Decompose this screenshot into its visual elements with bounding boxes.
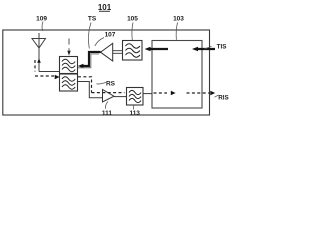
leader for 111 bbox=[105, 102, 108, 109]
filter 105 bbox=[123, 41, 143, 61]
antenna 109 bbox=[32, 33, 46, 72]
svg-text:TS: TS bbox=[88, 16, 97, 23]
LNA 111 (points right) bbox=[103, 90, 115, 103]
svg-text:TIS: TIS bbox=[217, 44, 227, 51]
leader for 109 bbox=[41, 22, 44, 32]
wire antenna to TX filter bbox=[39, 71, 60, 73]
TX filter (duplexer top) bbox=[60, 57, 78, 74]
leader for 103 bbox=[176, 23, 177, 40]
heavy TS input arrow at right (TIS) bbox=[198, 48, 216, 50]
dashed RS path from antenna down bbox=[35, 60, 54, 76]
arrowhead into TX filter bbox=[78, 64, 84, 68]
thin shadow elbow bbox=[78, 54, 99, 68]
svg-text:107: 107 bbox=[105, 32, 116, 39]
svg-text:109: 109 bbox=[36, 16, 47, 23]
leader for 107 bbox=[95, 38, 104, 47]
arrowhead into RX filter bbox=[55, 75, 60, 79]
leader for RIS bbox=[215, 95, 219, 97]
leader for RS bbox=[97, 82, 107, 84]
wire 111 to 113 bbox=[114, 96, 127, 98]
double wire 105 to 107 bbox=[113, 51, 123, 54]
svg-text:RS: RS bbox=[106, 81, 116, 88]
wire 113 to 103 bbox=[143, 93, 152, 95]
filter 113 bbox=[127, 88, 144, 106]
svg-text:105: 105 bbox=[127, 16, 138, 23]
svg-text:RIS: RIS bbox=[218, 95, 229, 102]
solid RS wiring filter to amp bbox=[78, 82, 103, 98]
outer module box 101 bbox=[3, 30, 210, 115]
figure label 101 bbox=[98, 3, 112, 12]
svg-text:103: 103 bbox=[173, 16, 184, 23]
leader for 105 bbox=[132, 23, 133, 41]
RFIC box 103 bbox=[152, 41, 202, 109]
small arrow into TX filter top bbox=[67, 39, 70, 56]
dashed RS exit with arrow (RIS) bbox=[187, 92, 210, 94]
svg-text:111: 111 bbox=[102, 110, 113, 117]
heavy TS elbow from 107 to TX filter bbox=[81, 52, 101, 66]
RX filter (duplexer bottom) bbox=[60, 74, 78, 91]
dashed RS inside 103 with arrow bbox=[154, 92, 168, 94]
dashed RS path RX filter to amp 111 bbox=[78, 77, 125, 93]
svg-text:113: 113 bbox=[129, 110, 140, 117]
arrowhead up on antenna line (TS to antenna) bbox=[37, 58, 41, 62]
leader for TIS bbox=[204, 46, 212, 49]
leader for 113 bbox=[132, 105, 135, 110]
leader for TS bbox=[88, 23, 91, 49]
power amp 107 (points left) bbox=[101, 43, 113, 61]
heavy TS arrow 103 to 105 bbox=[150, 48, 168, 50]
svg-text:101: 101 bbox=[98, 3, 112, 12]
